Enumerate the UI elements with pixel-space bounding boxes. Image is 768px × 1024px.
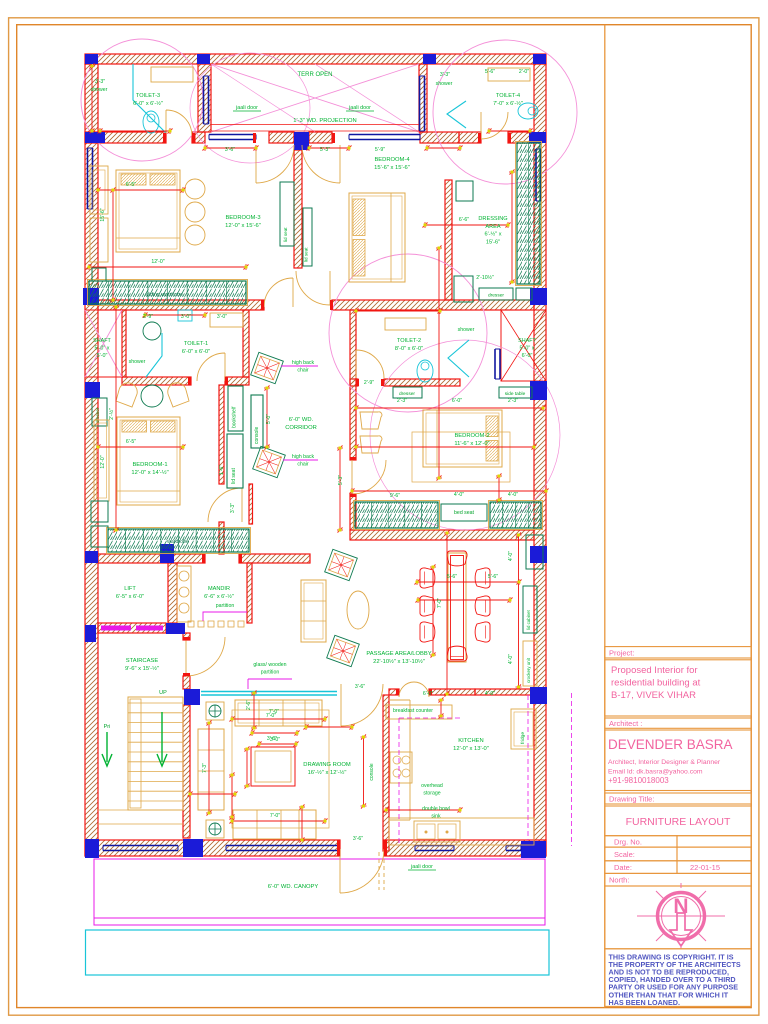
svg-text:3'-0": 3'-0": [181, 314, 191, 320]
svg-text:shower: shower: [436, 81, 453, 87]
drawing room sofa bottom: [233, 810, 316, 839]
label jaali door left: [235, 105, 258, 111]
svg-text:SHAFT: SHAFT: [518, 338, 536, 344]
toilet-4 vanity: [488, 68, 530, 81]
title block: drg no row: [605, 836, 677, 847]
dim sofa top span: [230, 716, 328, 722]
svg-text:crockery unit: crockery unit: [526, 657, 531, 683]
svg-text:lid seat: lid seat: [283, 227, 288, 242]
lid seat corridor: [227, 434, 243, 488]
door toilet-1: [197, 353, 225, 381]
door passage to drawing: [341, 684, 383, 726]
label partition mandir: [216, 603, 235, 609]
terrace parapet right segment: [309, 132, 332, 143]
lobby oval table: [347, 591, 369, 629]
svg-text:lid cabinet: lid cabinet: [526, 609, 531, 630]
dim toilet-2 top: [354, 308, 443, 314]
console corridor: [251, 395, 263, 448]
svg-text:8'-0" x 6'-0": 8'-0" x 6'-0": [395, 346, 423, 352]
toilet-4 left wall: [419, 64, 427, 132]
bedroom-2 bottom wall: [350, 530, 534, 540]
toilet-1 wc basin: [143, 322, 161, 340]
toilet-1 bottom wall b: [225, 377, 249, 385]
svg-text:2'-3": 2'-3": [397, 398, 407, 404]
bedroom-2 dresser: [393, 387, 422, 398]
svg-text:3'-6": 3'-6": [353, 836, 363, 842]
label breakfast counter: [393, 708, 433, 714]
dim text dress: [476, 274, 494, 281]
door bedroom-3: [264, 278, 293, 307]
dim sofa left h: [188, 791, 238, 797]
svg-text:bookshelf: bookshelf: [232, 406, 238, 428]
north compass symbol: [637, 883, 725, 949]
drawing room sofa top: [235, 700, 322, 726]
svg-text:4'-0": 4'-0": [508, 654, 514, 664]
label bedroom-3: [225, 215, 261, 229]
svg-text:1'-3" WD. PROJECTION: 1'-3" WD. PROJECTION: [293, 118, 356, 124]
dim window left: [203, 145, 259, 151]
dressing dresser: [479, 288, 513, 300]
svg-text:12'-0" x 13'-0": 12'-0" x 13'-0": [453, 746, 489, 752]
lobby sofa vertical: [301, 580, 326, 642]
dim sofa bottom v: [299, 805, 305, 843]
layout circle bedroom-2: [370, 340, 560, 530]
toilet-2 shower partition: [448, 340, 469, 377]
lift bottom wall: [98, 623, 166, 633]
sliding wardrobe bedroom-3: [88, 280, 248, 306]
dim text bed4: [459, 217, 469, 223]
bottom exterior wall east: [384, 840, 546, 856]
column C8: [83, 288, 99, 305]
drawing room rug: [232, 710, 329, 828]
toilet-1 cistern: [178, 310, 192, 321]
door jamb blocks: [163, 133, 511, 856]
kitchen top wall b: [429, 689, 475, 695]
label wardrobe b1: [167, 539, 189, 545]
label staircase: [125, 658, 159, 672]
staircase treads: [98, 697, 183, 824]
dim wardrobe b2: [350, 488, 549, 494]
dim sofa bottom t: [270, 813, 280, 819]
label mandir: [204, 586, 234, 600]
svg-text:bed seat: bed seat: [454, 510, 474, 516]
label sink: [422, 806, 450, 819]
dim text t4: [440, 72, 450, 78]
dim sofa left: [229, 773, 235, 820]
toilet-3 wc: [143, 111, 159, 133]
corridor jog wall: [249, 484, 253, 524]
svg-text:TOILET-1: TOILET-1: [184, 341, 208, 347]
glass partition drawing room: [201, 692, 337, 696]
svg-text:jaali door: jaali door: [410, 864, 433, 870]
toilet-1 left wall: [122, 310, 126, 377]
svg-text:5'-6": 5'-6": [447, 574, 457, 580]
glass partition leader: [248, 679, 292, 689]
dim 3-0b: [217, 314, 227, 320]
column C6: [294, 132, 309, 150]
svg-text:5'-3": 5'-3": [320, 147, 330, 153]
dim dining long v: [444, 531, 450, 697]
svg-text:fridge: fridge: [520, 732, 526, 744]
dim bedroom-4 vertical: [436, 246, 442, 481]
svg-text:STAIRCASE: STAIRCASE: [126, 658, 159, 664]
bedroom-2 side table: [499, 387, 532, 398]
svg-text:2'-3": 2'-3": [508, 398, 518, 404]
svg-text:lid seat: lid seat: [231, 468, 237, 484]
dim sofa: [266, 713, 276, 719]
svg-text:North:: North:: [609, 876, 629, 885]
svg-text:MANDIR: MANDIR: [208, 586, 230, 592]
svg-text:AREA: AREA: [485, 224, 501, 230]
svg-text:15'-6": 15'-6": [486, 239, 500, 245]
label bedroom-1: [131, 462, 168, 476]
column C10: [85, 382, 100, 398]
dim door bottom: [353, 836, 363, 842]
toilet-3 bottom wall b: [192, 132, 205, 143]
svg-text:sink: sink: [431, 813, 441, 819]
svg-text:5'-0": 5'-0": [97, 353, 108, 359]
svg-text:Project:: Project:: [609, 649, 634, 658]
canopy plot boundary cyan: [86, 930, 550, 975]
terrace window left: [209, 135, 256, 140]
svg-text:partition: partition: [261, 669, 280, 675]
svg-text:BEDROOM-4: BEDROOM-4: [374, 157, 410, 163]
svg-text:BEDROOM-3: BEDROOM-3: [225, 215, 260, 221]
dim text b3w: [151, 259, 164, 265]
canopy inner line: [94, 917, 545, 919]
door staircase lobby: [186, 637, 225, 676]
drawing room sofa left: [198, 729, 224, 810]
toilet-4 window: [420, 76, 425, 131]
svg-text:6'-5": 6'-5": [126, 182, 136, 188]
bedroom-3 left cabinets: [90, 166, 108, 262]
toilet-3 window: [204, 76, 209, 124]
svg-text:dresser: dresser: [399, 391, 415, 397]
svg-text:Pri: Pri: [104, 724, 111, 730]
dim drawing: [304, 724, 355, 730]
dim centre table left: [244, 747, 250, 789]
right wall window shaft: [495, 349, 500, 379]
dim 3-0a: [181, 314, 191, 320]
svg-text:5'-6": 5'-6": [488, 574, 498, 580]
svg-text:N: N: [673, 895, 688, 918]
kitchen dashed right: [527, 695, 529, 840]
toilet-1 shower partition: [146, 333, 162, 377]
niche teal right wall: [526, 535, 543, 569]
dim bedroom-3 v: [110, 188, 116, 303]
svg-text:5'-6": 5'-6": [485, 69, 495, 75]
toilet-3 right wall: [198, 64, 211, 132]
svg-text:5'-9": 5'-9": [375, 147, 385, 153]
dim kitchen bottom: [384, 807, 463, 813]
bedroom-1 cabinets: [91, 420, 109, 547]
svg-text:PASSAGE AREA/LOBBY: PASSAGE AREA/LOBBY: [366, 651, 431, 657]
lobby chair 1: [325, 549, 358, 580]
dim bed1: [126, 439, 136, 445]
wardrobe bedroom-2 left: [354, 501, 440, 530]
svg-text:wardrobe: wardrobe: [167, 539, 189, 545]
label toilet-2: [395, 338, 423, 352]
dim bed-2 r: [496, 474, 502, 503]
bedroom-3 dresser low: [92, 268, 106, 281]
dining chair R1: [475, 568, 490, 588]
label passage lobby: [366, 651, 431, 665]
svg-text:15'-6" x 15'-6": 15'-6" x 15'-6": [374, 165, 410, 171]
svg-text:7'-0": 7'-0": [269, 709, 279, 715]
svg-text:2'-0": 2'-0": [519, 69, 529, 75]
bedroom-4 lid seat box: [303, 208, 312, 266]
svg-text:shower: shower: [91, 87, 108, 93]
bed seat bedroom-2: [441, 504, 487, 521]
svg-text:high back: high back: [292, 454, 315, 460]
bed bedroom-1: [117, 417, 180, 505]
mid horizontal wall east: [332, 300, 534, 310]
door bedroom-1: [208, 488, 242, 522]
svg-text:7'-0": 7'-0": [270, 813, 280, 819]
svg-text:dresser: dresser: [95, 407, 100, 423]
label shaft left: [93, 338, 111, 359]
right exterior wall: [534, 64, 546, 856]
label toilet-1: [182, 341, 210, 355]
svg-text:high back: high back: [292, 360, 315, 366]
toilet-2 bottom wall a: [350, 379, 358, 386]
svg-text:6'-5" x 6'-0": 6'-5" x 6'-0": [116, 594, 144, 600]
svg-text:6'-0" WD.: 6'-0" WD.: [289, 417, 314, 423]
dim left top: [89, 64, 95, 134]
svg-text:LIFT: LIFT: [124, 586, 136, 592]
svg-text:5'-0" x: 5'-0" x: [95, 346, 110, 352]
staircase right wall upper: [183, 633, 190, 640]
label overhead storage: [421, 783, 443, 796]
drawing room centre table: [251, 747, 295, 786]
svg-text:6'-½" x: 6'-½" x: [484, 231, 501, 238]
label dressing area: [478, 216, 507, 245]
label glass partition: [253, 662, 286, 675]
toilet-2 vanity: [385, 318, 426, 330]
title column divider: [604, 25, 606, 1008]
column C1: [85, 54, 98, 64]
svg-text:5'-3": 5'-3": [338, 475, 344, 485]
toilet-2 wc: [417, 360, 433, 382]
svg-text:15'-6": 15'-6": [100, 208, 106, 221]
bed bedroom-4: [349, 193, 405, 282]
door bedroom-2: [352, 460, 386, 494]
svg-text:7'-3": 7'-3": [202, 763, 208, 773]
wardrobe bedroom-2 right: [489, 501, 543, 530]
partition leader: [203, 612, 247, 621]
label shower toilet-2: [458, 327, 475, 333]
kitchen counter bottom: [389, 818, 534, 845]
magenta wall panels staircase: [101, 626, 163, 631]
column C3: [423, 54, 436, 64]
column C4: [533, 54, 546, 64]
svg-text:3'-0": 3'-0": [270, 737, 280, 743]
svg-text:TOILET-2: TOILET-2: [397, 338, 421, 344]
dim bedroom-2 h: [354, 444, 537, 450]
column C18: [530, 687, 547, 704]
column C17: [184, 689, 200, 705]
door terrace right: [302, 145, 340, 183]
bedroom-1 dresser: [92, 398, 107, 426]
door toilet-2: [356, 350, 384, 378]
svg-text:2'-9": 2'-9": [143, 314, 153, 320]
title block: copyright box: [605, 949, 751, 1007]
shaft left with cross: [85, 310, 122, 377]
svg-text:chair: chair: [297, 461, 309, 467]
top exterior wall: [85, 54, 546, 64]
lift right wall: [168, 563, 177, 623]
svg-text:BEDROOM-2: BEDROOM-2: [454, 433, 489, 439]
label bedroom-2: [454, 433, 489, 447]
label toilet-4: [493, 93, 523, 107]
label corridor: [285, 417, 317, 431]
column C12: [85, 551, 98, 563]
svg-text:partition: partition: [216, 603, 235, 609]
dim toilet-3 width: [98, 128, 173, 134]
dim text bed3: [126, 182, 136, 188]
label toilet-3: [133, 93, 163, 107]
door toilet-3: [166, 110, 192, 136]
title block: project row: [605, 647, 751, 658]
ceiling fan circles bedroom-3: [185, 179, 205, 245]
dim side tbl: [508, 398, 518, 404]
label shaft right: [518, 338, 536, 359]
toilet-4 bottom wall b: [508, 132, 534, 143]
dim text t4c: [519, 69, 529, 75]
kitchen left wall: [383, 695, 389, 851]
bedroom-2 left wall lower: [350, 494, 356, 530]
fridge: [511, 709, 536, 749]
column C7: [529, 132, 546, 143]
svg-text:6'-0" WD. CANOPY: 6'-0" WD. CANOPY: [268, 884, 319, 890]
door canopy main: [340, 849, 384, 893]
svg-text:2'-½": 2'-½": [108, 408, 115, 420]
wardrobe dressing area: [516, 142, 542, 286]
svg-text:1'-6": 1'-6": [219, 465, 225, 475]
dim centre table: [250, 730, 300, 736]
breakfast counter: [386, 705, 452, 719]
bedroom-4 / dressing wall: [445, 180, 452, 300]
corner table 1: [206, 702, 224, 720]
svg-text:Email Id: dk.basra@yahoo.com: Email Id: dk.basra@yahoo.com: [608, 769, 703, 776]
svg-text:4'-0": 4'-0": [508, 551, 514, 561]
svg-text:Drg. No.: Drg. No.: [614, 837, 642, 846]
toilet-3 vanity: [151, 67, 193, 82]
svg-text:3'-3": 3'-3": [440, 72, 450, 78]
left mid-lower wall a: [98, 554, 205, 563]
projection dashed outside right wall: [571, 693, 573, 846]
label canopy: [268, 884, 319, 890]
svg-text:6'-6" x 6'-½": 6'-6" x 6'-½": [204, 593, 234, 600]
terrace parapet segment at toilet-4: [420, 132, 459, 143]
dim b2 top: [452, 398, 462, 404]
svg-text:6'-6": 6'-6": [459, 217, 469, 223]
dim dining b: [488, 574, 498, 580]
dim kitchen top: [485, 691, 495, 697]
dining chair R3: [475, 622, 490, 642]
left wall rotated dims: [100, 208, 106, 468]
column C11: [530, 381, 547, 400]
svg-text:6'-0": 6'-0": [522, 353, 533, 359]
toilet-1 vanity: [210, 313, 243, 327]
svg-text:shower: shower: [129, 359, 146, 365]
terrace open cross: [211, 64, 419, 132]
svg-text:7'-0": 7'-0": [437, 598, 443, 608]
toilet-3 bottom wall: [85, 132, 166, 143]
dim dresser2: [397, 398, 407, 404]
shaft right with cross: [501, 310, 546, 381]
svg-text:3'-0": 3'-0": [217, 314, 227, 320]
column C9: [530, 288, 547, 305]
svg-text:Proposed Interior for: Proposed Interior for: [611, 665, 698, 676]
dim bed-3: [96, 187, 186, 193]
toilet-3 shower partition: [133, 64, 166, 133]
svg-text:3'-3": 3'-3": [95, 79, 105, 85]
dim dressing v: [509, 170, 515, 285]
staircase right wall mid: [183, 676, 190, 689]
stair arrow pri: [102, 732, 112, 766]
label jaali door right: [348, 105, 371, 111]
label sliding wardrobe: [145, 292, 183, 298]
left wall window bedroom-3: [88, 148, 93, 209]
svg-text:residential building at: residential building at: [611, 678, 701, 689]
dining chair L2: [420, 596, 435, 616]
bottom window kitchen b: [506, 846, 521, 851]
dim bed-1: [96, 444, 186, 450]
left mid-lower wall b: [239, 554, 310, 563]
svg-text:12'-0": 12'-0": [151, 259, 164, 265]
svg-text:2'-6": 2'-6": [246, 700, 252, 710]
svg-text:7'-0" x 6'-½": 7'-0" x 6'-½": [493, 100, 523, 107]
svg-text:TERR OPEN: TERR OPEN: [297, 72, 332, 78]
svg-text:SHAFT: SHAFT: [93, 338, 111, 344]
svg-text:Architect :: Architect :: [609, 719, 642, 728]
svg-text:side table: side table: [505, 391, 526, 397]
dim lobby right v: [516, 533, 522, 690]
rotated dims bedroom areas: [108, 408, 344, 513]
svg-text:Drawing Title:: Drawing Title:: [609, 795, 654, 804]
bedroom-4 bedside bottom: [454, 276, 473, 302]
dim text t4b: [485, 69, 495, 75]
toilet-4 shower partition: [447, 101, 466, 128]
svg-text:2'-9": 2'-9": [364, 380, 374, 386]
dim text win1: [225, 147, 235, 153]
svg-text:dresser: dresser: [488, 293, 504, 299]
layout circle toilet-2: [329, 254, 487, 412]
svg-text:TOILET-4: TOILET-4: [496, 93, 520, 99]
dim text win2: [320, 147, 330, 153]
door bedroom-4 entry: [296, 271, 330, 305]
svg-text:lid seat: lid seat: [304, 247, 309, 262]
door canopy dashed leaves: [379, 852, 384, 890]
bottom window staircase: [103, 846, 178, 851]
mandir partition dashes: [188, 621, 244, 627]
svg-text:9'-6": 9'-6": [390, 493, 400, 499]
title block: north row: [605, 873, 751, 886]
svg-text:6'-0" x 6'-0": 6'-0" x 6'-0": [182, 349, 210, 355]
column C13: [160, 544, 174, 563]
label shower toilet-1: [129, 359, 146, 365]
dim door top: [355, 684, 365, 690]
svg-text:jaali door: jaali door: [348, 105, 371, 111]
bed bedroom-3: [116, 170, 180, 252]
svg-text:TOILET-3: TOILET-3: [136, 93, 160, 99]
dim table: [267, 736, 277, 742]
dim ward b: [454, 492, 464, 498]
title block: drawing title box: [605, 806, 751, 836]
dim dining a: [447, 574, 457, 580]
label bedroom-4: [374, 157, 410, 171]
